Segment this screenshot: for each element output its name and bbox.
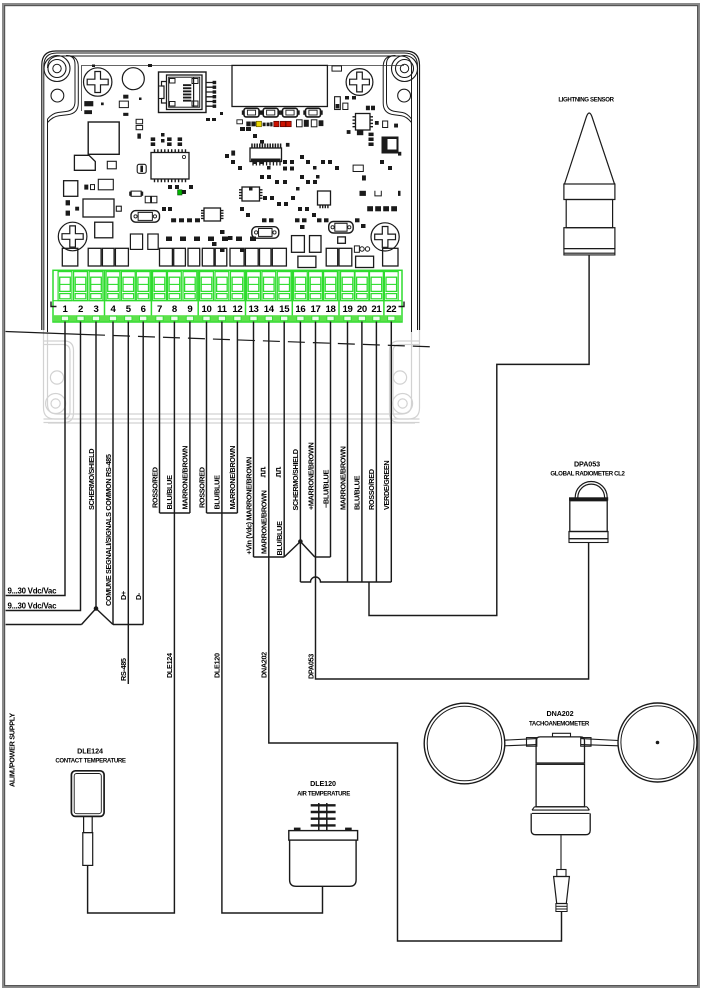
capacitor C1 block (64, 181, 78, 197)
PCB board edge (82, 66, 405, 112)
svg-text:D-: D- (134, 592, 143, 600)
svg-text:BLU/BLUE: BLU/BLUE (353, 475, 362, 510)
svg-text:BLU/BLUE: BLU/BLUE (275, 521, 284, 556)
DLE124 sensor head (71, 771, 104, 817)
terminal block lower green band (54, 315, 401, 321)
capacitor C4 (343, 103, 348, 109)
svg-text:DPA053: DPA053 (574, 460, 600, 469)
IC U1 (SOIC-20) (151, 153, 189, 180)
electrolytic cap C3 (335, 97, 341, 110)
svg-text:BLU/BLUE: BLU/BLUE (165, 475, 174, 510)
inductor L1 block (88, 122, 119, 154)
wire 22 VERDE/GREEN (lightning) (390, 322, 392, 583)
DPA053 body (570, 501, 607, 532)
svg-text:DPA053: DPA053 (306, 654, 315, 679)
svg-text:DLE124: DLE124 (165, 652, 174, 678)
wire 7 ROSSO/RED (DLE124) (159, 322, 161, 514)
svg-text:13: 13 (248, 304, 258, 315)
svg-text:20: 20 (357, 304, 367, 315)
svg-text:MARRONE/BROWN: MARRONE/BROWN (260, 490, 269, 554)
lightning sensor base band (564, 249, 615, 255)
svg-text:DLE120: DLE120 (310, 779, 336, 788)
transformer T1 (74, 155, 95, 170)
wire 6 D- (142, 322, 144, 625)
svg-text:DLE124: DLE124 (77, 747, 103, 756)
svg-text:9...30 Vdc/Vac: 9...30 Vdc/Vac (8, 602, 58, 611)
dashed lid split line (6, 332, 437, 348)
DNA202 connector tip (556, 904, 567, 912)
terminal block corner brackets (51, 302, 404, 307)
svg-text:RS-485: RS-485 (119, 658, 128, 681)
IC U4 (SOIC-8) (242, 187, 260, 201)
twisted-pair squiggle wire 13 (261, 467, 265, 478)
DLE120 radiation fins (311, 803, 336, 831)
pin pairs above IC U1 (151, 137, 182, 146)
svg-text:6: 6 (141, 304, 146, 315)
svg-text:12: 12 (232, 304, 242, 315)
wire 15 BLU/BLUE (DNA202) (283, 322, 285, 558)
svg-text:3: 3 (93, 304, 98, 315)
terminal block green housing (53, 270, 402, 322)
capacitor C2 block (95, 222, 113, 238)
lightning sensor feed wire (369, 255, 589, 616)
svg-text:10: 10 (201, 304, 211, 315)
RJ45 jack J1 (159, 72, 207, 113)
IC U5 (QFN) (318, 191, 331, 205)
svg-text:15: 15 (279, 304, 290, 315)
enclosure outer wall second line (44, 53, 418, 330)
svg-text:ROSSO/RED: ROSSO/RED (367, 469, 376, 510)
lightning busbar with jump over wire 17 (300, 577, 391, 582)
opto component with bar (137, 164, 146, 173)
svg-text:22: 22 (386, 304, 396, 315)
capacitor pair C5 C6 (145, 196, 150, 203)
DNA202 rotor top stub (553, 733, 571, 737)
wire 2 (power 9..30 Vdc/Vac) (6, 322, 81, 611)
wire 5 D+ continuing as RS-485 drop (127, 322, 129, 685)
wire 21 ROSSO/RED (lightning) (375, 322, 377, 583)
enclosure faint left mounting ear (44, 341, 74, 423)
DNA202 left cup (424, 703, 505, 784)
lightning sensor cone (565, 113, 615, 184)
svg-text:SCHERMO/SHIELD: SCHERMO/SHIELD (291, 449, 300, 510)
svg-text:−BLU/BLUE: −BLU/BLUE (321, 470, 330, 508)
svg-text:11: 11 (217, 304, 228, 315)
svg-text:GLOBAL RADIOMETER CL2: GLOBAL RADIOMETER CL2 (550, 471, 625, 478)
lightning sensor collar (564, 184, 615, 200)
relay K1 block (83, 199, 114, 217)
lightning sensor mid section (566, 200, 612, 228)
twisted-pair squiggle wire 14 (277, 467, 281, 478)
enclosure outer wall (42, 51, 420, 330)
wire 4 COMUNE SEGNALI (112, 322, 114, 625)
LED spacer chips (246, 122, 272, 127)
svg-text:14: 14 (264, 304, 275, 315)
dark pad row above connector row (166, 237, 256, 242)
DLE120 body (290, 840, 357, 886)
svg-text:AIR TEMPERATURE: AIR TEMPERATURE (297, 791, 350, 798)
wire 18 -BLU/BLUE (DPA053) (330, 322, 332, 558)
svg-text:BLU/BLUE: BLU/BLUE (213, 475, 222, 510)
mounting screw top-left (84, 68, 112, 96)
DPA053 base edge (569, 539, 608, 543)
IC U3 (SOIC-8) (356, 114, 371, 131)
DNA202 right cup (618, 703, 697, 782)
svg-text:16: 16 (295, 304, 305, 315)
svg-text:7: 7 (157, 304, 162, 315)
crystal Y2 (252, 227, 279, 239)
pin header right of RJ45 (206, 83, 213, 107)
svg-text:19: 19 (342, 304, 352, 315)
DLE124 probe (83, 833, 93, 866)
DPA053 glass dome (575, 482, 607, 498)
svg-text:+MARRONE/BROWN: +MARRONE/BROWN (306, 442, 315, 510)
crystal Y1 (131, 211, 160, 223)
wire 16 SCHERMO/SHIELD (DPA053) with shield ties (284, 322, 315, 583)
wire 10 ROSSO/RED (DLE120) (206, 322, 208, 514)
DLE120 top bar (289, 831, 358, 841)
LEDs red (274, 121, 291, 126)
svg-text:2: 2 (78, 304, 83, 315)
mounting screw bottom-left (58, 222, 87, 251)
wire 17 +MARRONE/BROWN (DPA053) continues to sensor (316, 322, 589, 680)
svg-text:+Vin (Vdc) MARRONE/BROWN: +Vin (Vdc) MARRONE/BROWN (244, 457, 253, 555)
wire 11 BLU/BLUE (DLE120) continues to sensor (222, 322, 323, 914)
RS-485 busbar (6, 624, 144, 626)
resistor R1 (131, 191, 141, 196)
lightning sensor lower section (564, 228, 615, 249)
svg-text:18: 18 (325, 304, 336, 315)
component bottom-left pads (130, 234, 158, 249)
DNA202 connector body (554, 877, 570, 904)
enclosure top-left screw pod (44, 56, 78, 123)
svg-text:LIGHTNING SENSOR: LIGHTNING SENSOR (558, 97, 614, 104)
svg-text:VERDE/GREEN: VERDE/GREEN (382, 461, 391, 510)
mounting screw top-right (346, 69, 373, 96)
DLE120 top screws (294, 828, 352, 831)
DNA202 cable (560, 835, 562, 869)
enclosure faint right mounting ear (390, 341, 420, 423)
display module box (232, 65, 327, 106)
crystal Y3 (329, 222, 354, 234)
DNA202 body cylinder (536, 764, 584, 807)
DLE124 neck (84, 816, 93, 832)
small pads near bottom-right screw (354, 246, 369, 252)
wire 13 +Vin MARRONE/BROWN (DNA202) (253, 322, 255, 558)
svg-text:MARRONE/BROWN: MARRONE/BROWN (338, 446, 347, 510)
wire 14 MARRONE/BROWN (DNA202) continues to sensor (269, 322, 562, 942)
terminal clamp cells (58, 272, 398, 301)
wire 3 SCHERMO/SHIELD with V-join to RS-485 bus (82, 322, 114, 625)
wire 12 MARRONE/BROWN (DLE120) (236, 322, 238, 514)
DNA202 connector top (557, 870, 566, 877)
status row right parts (237, 120, 324, 127)
DNA202 left arm (504, 738, 537, 747)
DPA053 busbar (315, 556, 331, 558)
push buttons S1-S4 (242, 108, 323, 117)
DNA202 busbar (254, 556, 285, 558)
small white rects mid-left (98, 161, 121, 211)
mounting screw bottom-right (371, 223, 399, 251)
svg-text:SCHERMO/SHIELD: SCHERMO/SHIELD (87, 449, 96, 510)
IC U6 (SOIC-8) (204, 208, 221, 221)
svg-text:9: 9 (187, 304, 192, 315)
LED yellow (256, 121, 261, 126)
DNA202 rotor cap (536, 737, 584, 763)
terminal band slots (61, 316, 395, 320)
terminal numbers 1-22 (62, 304, 396, 315)
DLE124 busbar (160, 512, 190, 514)
IC U2 (SSOP) (250, 144, 282, 166)
svg-text:CONTACT TEMPERATURE: CONTACT TEMPERATURE (55, 758, 126, 765)
DLE120 busbar (207, 512, 238, 514)
svg-text:ALIM./POWER SUPPLY: ALIM./POWER SUPPLY (8, 713, 17, 787)
PCB small passive components scatter (66, 64, 402, 252)
IC U7 (PLCC) (382, 137, 399, 154)
wire 20 BLU/BLUE (lightning) (361, 322, 363, 583)
DNA202 base flange (532, 807, 589, 814)
DNA202 right arm (581, 738, 619, 747)
wire 9 MARRONE/BROWN (DLE124) (189, 322, 191, 514)
DNA202 base block (531, 813, 590, 834)
enclosure faint lower body (44, 330, 420, 423)
svg-text:21: 21 (371, 304, 382, 315)
svg-text:MARRONE/BROWN: MARRONE/BROWN (181, 446, 190, 510)
wire 19 MARRONE/BROWN (lightning) (347, 322, 349, 583)
standoff circle (122, 68, 144, 90)
svg-text:ROSSO/RED: ROSSO/RED (197, 467, 206, 508)
DPA053 bottom band (569, 532, 608, 539)
wire 1 (power 9..30 Vdc/Vac) (6, 322, 65, 596)
svg-text:DNA202: DNA202 (547, 709, 574, 718)
wire 8 BLU/BLUE (DLE124) continues to sensor (88, 322, 175, 914)
DPA053 top bar (569, 497, 608, 500)
svg-text:D+: D+ (119, 591, 128, 600)
svg-text:9...30 Vdc/Vac: 9...30 Vdc/Vac (8, 587, 58, 596)
enclosure top-right screw pod (383, 56, 417, 123)
svg-text:17: 17 (310, 304, 320, 315)
enclosure inner wall (48, 56, 412, 332)
svg-text:DLE120: DLE120 (213, 653, 222, 678)
svg-text:ROSSO/RED: ROSSO/RED (150, 467, 159, 508)
DNA202 right cup center dot (656, 741, 660, 745)
svg-text:TACHOANEMOMETER: TACHOANEMOMETER (529, 721, 590, 728)
svg-text:DNA202: DNA202 (260, 652, 269, 678)
terminal solder pads row (62, 236, 398, 268)
svg-text:MARRONE/BROWN: MARRONE/BROWN (228, 446, 237, 510)
junction dot wire 3 (94, 606, 99, 611)
svg-text:COMUNE SEGNALI/SIGNALS COMMON: COMUNE SEGNALI/SIGNALS COMMON RS-485 (104, 454, 113, 606)
junction dot wire 16 (298, 539, 303, 544)
